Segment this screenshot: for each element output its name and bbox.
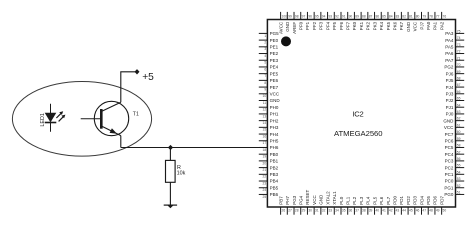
svg-text:65: 65 [457, 97, 461, 101]
IC2 pin 47 PD4 (bottom) [419, 196, 426, 215]
IC2 pin 41 PL6 (bottom) [379, 196, 386, 214]
svg-text:59: 59 [457, 137, 461, 141]
svg-text:9: 9 [264, 87, 266, 91]
svg-text:PK3: PK3 [372, 21, 377, 30]
svg-text:PF7: PF7 [346, 21, 351, 30]
svg-text:PK1: PK1 [359, 21, 364, 30]
svg-text:2: 2 [264, 41, 266, 45]
svg-text:18: 18 [263, 148, 267, 152]
svg-text:PA3: PA3 [445, 31, 454, 36]
svg-text:39: 39 [369, 209, 373, 213]
svg-text:44: 44 [402, 209, 406, 213]
IC2 pin 57 PC4 (right) [445, 150, 465, 157]
svg-text:XTAL1: XTAL1 [332, 191, 337, 205]
svg-text:31: 31 [315, 209, 319, 213]
svg-text:VCC: VCC [312, 195, 317, 205]
svg-text:RESET: RESET [305, 190, 310, 205]
IC2 pin 90 PF7 (top) [346, 12, 353, 30]
svg-text:PH6: PH6 [270, 145, 279, 150]
svg-text:30: 30 [308, 209, 312, 213]
svg-text:72: 72 [457, 50, 461, 54]
svg-text:10: 10 [263, 94, 267, 98]
IC2 pin 51 PG0 (right) [444, 191, 464, 198]
IC2 pin 40 PL5 (bottom) [372, 196, 379, 214]
svg-text:PD7: PD7 [439, 196, 444, 205]
svg-text:33: 33 [328, 209, 332, 213]
svg-text:28: 28 [295, 209, 299, 213]
svg-text:PB6: PB6 [270, 192, 279, 197]
IC2 pin 36 PL1 (bottom) [346, 196, 353, 214]
svg-text:PG4: PG4 [299, 195, 304, 205]
svg-text:PF5: PF5 [332, 21, 337, 30]
IC2 pin 100 AVCC (top) [278, 12, 287, 34]
svg-text:PK5: PK5 [386, 21, 391, 30]
svg-text:PC7: PC7 [445, 132, 454, 137]
svg-text:88: 88 [362, 15, 366, 19]
svg-text:17: 17 [263, 141, 267, 145]
IC2 pin 53 PC0 (right) [445, 177, 465, 184]
svg-text:PJ4: PJ4 [446, 85, 454, 90]
IC2 pin 8 PE6 (left) [259, 78, 279, 85]
IC2 pin 74 PA4 (right) [445, 36, 464, 43]
svg-text:PJ3: PJ3 [446, 91, 454, 96]
svg-text:89: 89 [355, 15, 359, 19]
IC2 pin 94 PF3 (top) [319, 12, 326, 30]
svg-text:1: 1 [264, 34, 266, 38]
IC2 pin 97 PF0 (top) [299, 12, 306, 30]
IC2 pin 4 PE2 (left) [259, 51, 279, 58]
svg-text:PA2: PA2 [439, 21, 444, 30]
svg-text:PF2: PF2 [312, 21, 317, 30]
svg-text:76: 76 [443, 15, 447, 19]
IC2 pin 72 PA6 (right) [445, 50, 464, 57]
svg-text:21: 21 [263, 168, 267, 172]
IC2 pin 71 PA7 (right) [445, 56, 464, 63]
svg-text:94: 94 [322, 15, 326, 19]
svg-text:87: 87 [369, 15, 373, 19]
IC2 pin 48 PD5 (bottom) [426, 196, 433, 215]
svg-text:IC2: IC2 [352, 109, 363, 118]
svg-text:PE6: PE6 [270, 78, 279, 83]
svg-text:41: 41 [382, 209, 386, 213]
svg-text:100: 100 [282, 15, 288, 19]
IC2 pin 65 PJ2 (right) [446, 97, 465, 104]
svg-text:PC6: PC6 [445, 138, 454, 143]
svg-text:PJ1: PJ1 [446, 105, 454, 110]
svg-text:6: 6 [264, 67, 266, 71]
IC2 pin 13 PH1 (left) [259, 112, 279, 119]
svg-text:62: 62 [457, 117, 461, 121]
wire T1 emitter down to node [120, 136, 122, 148]
IC2 pin 17 PH5 (left) [259, 138, 279, 145]
svg-text:PB3: PB3 [270, 172, 279, 177]
IC2 pin 16 PH4 (left) [259, 132, 279, 139]
svg-text:64: 64 [457, 103, 461, 107]
junction dot [168, 145, 173, 150]
svg-text:PK6: PK6 [392, 21, 397, 30]
svg-text:PH0: PH0 [270, 105, 279, 110]
svg-text:PC0: PC0 [445, 179, 454, 184]
wire node to IC2 pin 18 PH6 [121, 147, 268, 149]
svg-text:95: 95 [315, 15, 319, 19]
IC2 pin 43 PD0 (bottom) [392, 196, 399, 215]
svg-text:PB7: PB7 [278, 196, 283, 205]
svg-text:67: 67 [457, 83, 461, 87]
svg-text:GND: GND [270, 98, 281, 103]
svg-text:90: 90 [349, 15, 353, 19]
svg-text:11: 11 [263, 101, 267, 105]
IC2 pin 28 PG3 (bottom) [292, 195, 299, 214]
svg-text:PF4: PF4 [325, 21, 330, 30]
svg-text:PC2: PC2 [445, 165, 454, 170]
supply pin +5 [135, 69, 140, 74]
svg-text:80: 80 [416, 15, 420, 19]
svg-text:PE7: PE7 [270, 85, 279, 90]
IC2 pin 44 PD1 (bottom) [399, 196, 406, 215]
svg-text:PH2: PH2 [270, 118, 279, 123]
IC2 pin 81 GND (top) [406, 12, 413, 32]
IC2 pin 3 PE1 (left) [259, 45, 279, 52]
svg-text:PL2: PL2 [352, 196, 357, 205]
svg-text:63: 63 [457, 110, 461, 114]
svg-text:38: 38 [362, 209, 366, 213]
svg-text:GND: GND [406, 21, 411, 32]
svg-text:PD6: PD6 [433, 196, 438, 205]
IC2 pin 11 GND (left) [259, 98, 281, 105]
IC2 pin 80 VCC (top) [413, 12, 420, 31]
svg-text:T1: T1 [133, 111, 139, 117]
IC2 pin 98 AREF (top) [292, 12, 299, 34]
IC2 pin 95 PF2 (top) [312, 12, 319, 30]
svg-text:45: 45 [409, 209, 413, 213]
svg-text:98: 98 [295, 15, 299, 19]
svg-text:22: 22 [263, 175, 267, 179]
svg-text:VCC: VCC [444, 125, 454, 130]
IC2 pin 12 PH0 (left) [259, 105, 279, 112]
IC2 pin 50 PD7 (bottom) [439, 196, 446, 215]
svg-text:99: 99 [288, 15, 292, 19]
svg-text:29: 29 [302, 209, 306, 213]
IC2 pin 30 RESET (bottom) [305, 190, 312, 215]
svg-text:PJ0: PJ0 [446, 112, 454, 117]
svg-text:PB5: PB5 [270, 185, 279, 190]
svg-text:GND: GND [285, 21, 290, 32]
svg-text:49: 49 [436, 209, 440, 213]
svg-text:PA0: PA0 [426, 21, 431, 30]
svg-text:85: 85 [382, 15, 386, 19]
svg-text:PF6: PF6 [339, 21, 344, 30]
svg-text:PA1: PA1 [433, 21, 438, 30]
svg-text:26: 26 [282, 209, 286, 213]
IC2 pin 1 PG5 (left) [259, 31, 279, 38]
IC2 pin 25 PB6 (left) [259, 192, 279, 199]
IC2 pin 54 PC1 (right) [445, 170, 465, 177]
IC2 pin 37 PL2 (bottom) [352, 196, 359, 214]
IC2 pin 85 PK4 (top) [379, 12, 386, 30]
svg-text:36: 36 [349, 209, 353, 213]
IC2 pin 64 PJ1 (right) [446, 103, 465, 110]
svg-text:PF3: PF3 [319, 21, 324, 30]
IC2 pin 55 PC2 (right) [445, 164, 465, 171]
svg-text:96: 96 [308, 15, 312, 19]
IC2 pin 69 PJ6 (right) [446, 70, 465, 77]
svg-text:79: 79 [422, 15, 426, 19]
svg-text:PF0: PF0 [299, 21, 304, 30]
svg-text:81: 81 [409, 15, 413, 19]
IC2 pin 67 PJ4 (right) [446, 83, 465, 90]
IC2 pin 68 PJ5 (right) [446, 76, 465, 83]
wire T1 collector to +5 supply [121, 72, 137, 103]
svg-text:ATMEGA2560: ATMEGA2560 [334, 129, 383, 138]
svg-text:58: 58 [457, 144, 461, 148]
svg-text:68: 68 [457, 76, 461, 80]
svg-text:16: 16 [263, 134, 267, 138]
svg-text:54: 54 [457, 170, 461, 174]
IC2 pin 84 PK5 (top) [386, 12, 393, 30]
IC2 pin 73 PA5 (right) [445, 43, 464, 50]
IC2 pin 59 PC6 (right) [445, 137, 465, 144]
IC2 pin 66 PJ3 (right) [446, 90, 465, 97]
IC2 pin 6 PE4 (left) [259, 65, 279, 72]
svg-text:GND: GND [319, 194, 324, 205]
svg-text:PL5: PL5 [372, 196, 377, 205]
IC2 pin 63 PJ0 (right) [446, 110, 465, 117]
svg-text:PL1: PL1 [346, 196, 351, 205]
svg-text:LED1: LED1 [40, 113, 46, 127]
svg-text:PE0: PE0 [270, 38, 279, 43]
svg-text:32: 32 [322, 209, 326, 213]
svg-text:PJ2: PJ2 [446, 98, 454, 103]
IC2 pin 1 marker dot [281, 36, 291, 46]
IC2 pin 62 GND (right) [443, 117, 464, 124]
IC2 pin 7 PE5 (left) [259, 71, 279, 78]
svg-text:19: 19 [263, 155, 267, 159]
transistor T1 [81, 101, 129, 135]
svg-text:83: 83 [396, 15, 400, 19]
svg-text:PG2: PG2 [444, 65, 454, 70]
svg-text:34: 34 [335, 209, 339, 213]
IC2 pin 5 PE3 (left) [259, 58, 279, 65]
IC2 pin 19 PB0 (left) [259, 152, 279, 159]
svg-text:AVCC: AVCC [278, 21, 283, 34]
svg-text:14: 14 [263, 121, 267, 125]
svg-text:7: 7 [264, 74, 266, 78]
IC2 pin 14 PH2 (left) [259, 118, 279, 125]
IC2 pin 56 PC3 (right) [445, 157, 465, 164]
IC2 pin 88 PK1 (top) [359, 12, 366, 30]
svg-text:VCC: VCC [413, 21, 418, 31]
svg-text:PH4: PH4 [270, 132, 279, 137]
svg-text:PB2: PB2 [270, 165, 279, 170]
svg-text:66: 66 [457, 90, 461, 94]
IC2 pin 92 PF5 (top) [332, 12, 339, 30]
svg-text:PL7: PL7 [386, 196, 391, 205]
svg-text:50: 50 [443, 209, 447, 213]
svg-text:97: 97 [302, 15, 306, 19]
IC2 pin 32 GND (bottom) [319, 194, 326, 215]
IC2 pin 18 PH6 (left) [259, 145, 279, 152]
svg-text:PC3: PC3 [445, 159, 454, 164]
svg-text:20: 20 [263, 161, 267, 165]
IC2 pin 76 PA2 (top) [439, 12, 446, 30]
svg-text:86: 86 [375, 15, 379, 19]
IC IC2 package outline [267, 20, 455, 208]
svg-text:43: 43 [396, 209, 400, 213]
svg-text:4: 4 [264, 54, 266, 58]
svg-text:PG3: PG3 [292, 195, 297, 205]
svg-text:78: 78 [429, 15, 433, 19]
svg-text:PJ5: PJ5 [446, 78, 454, 83]
svg-text:57: 57 [457, 150, 461, 154]
svg-text:PG0: PG0 [444, 192, 454, 197]
IC2 pin 38 PL3 (bottom) [359, 196, 366, 214]
IC2 pin 87 PK2 (top) [366, 12, 373, 30]
svg-text:PH3: PH3 [270, 125, 279, 130]
svg-text:PC4: PC4 [445, 152, 454, 157]
svg-text:+5: +5 [142, 72, 154, 83]
IC2 pin 22 PB3 (left) [259, 172, 279, 179]
IC2 pin 34 XTAL1 (bottom) [332, 191, 339, 215]
IC2 pin 58 PC5 (right) [445, 144, 465, 151]
svg-text:55: 55 [457, 164, 461, 168]
svg-text:PB4: PB4 [270, 179, 279, 184]
svg-text:PK2: PK2 [366, 21, 371, 30]
svg-text:27: 27 [288, 209, 292, 213]
svg-text:VCC: VCC [270, 91, 280, 96]
svg-text:PG1: PG1 [444, 185, 454, 190]
svg-text:84: 84 [389, 15, 393, 19]
IC2 pin 20 PB1 (left) [259, 159, 279, 166]
IC2 pin 83 PK6 (top) [392, 12, 399, 30]
IC2 pin 79 PJ7 (top) [419, 12, 426, 30]
svg-text:37: 37 [355, 209, 359, 213]
IC2 pin 26 PB7 (bottom) [278, 196, 285, 215]
IC2 pin 78 PA0 (top) [426, 12, 433, 30]
IC2 pin 52 PG1 (right) [444, 184, 464, 191]
IC2 pin 29 PG4 (bottom) [299, 195, 306, 214]
svg-text:PF1: PF1 [305, 21, 310, 30]
svg-text:51: 51 [457, 191, 461, 195]
svg-text:PH5: PH5 [270, 138, 279, 143]
svg-text:PL6: PL6 [379, 196, 384, 205]
svg-text:PE5: PE5 [270, 71, 279, 76]
IC2 pin 96 PF1 (top) [305, 12, 312, 30]
svg-text:53: 53 [457, 177, 461, 181]
IC2 pin 31 VCC (bottom) [312, 195, 319, 215]
IC2 pin 42 PL7 (bottom) [386, 196, 393, 214]
IC2 pin 33 XTAL2 (bottom) [325, 191, 332, 215]
svg-text:12: 12 [263, 108, 267, 112]
svg-text:AREF: AREF [292, 22, 297, 34]
IC2 pin 75 PA3 (right) [445, 30, 464, 37]
svg-text:77: 77 [436, 15, 440, 19]
svg-text:PH7: PH7 [285, 196, 290, 205]
svg-text:52: 52 [457, 184, 461, 188]
svg-text:PL0: PL0 [339, 196, 344, 205]
LED LED1 [45, 104, 66, 132]
label R 10k [177, 165, 186, 177]
svg-text:PL3: PL3 [359, 196, 364, 205]
svg-text:PB1: PB1 [270, 159, 279, 164]
IC2 pin 45 PD2 (bottom) [406, 196, 413, 215]
svg-text:PJ7: PJ7 [419, 21, 424, 29]
svg-text:42: 42 [389, 209, 393, 213]
svg-text:13: 13 [263, 114, 267, 118]
svg-text:74: 74 [457, 36, 461, 40]
IC2 pin 24 PB5 (left) [259, 185, 279, 192]
IC2 pin 91 PF6 (top) [339, 12, 346, 30]
svg-text:73: 73 [457, 43, 461, 47]
annotation ellipse around LED1 and T1 [12, 82, 151, 157]
svg-text:PK4: PK4 [379, 21, 384, 30]
svg-text:35: 35 [342, 209, 346, 213]
IC2 pin 10 VCC (left) [259, 91, 280, 98]
svg-text:PA4: PA4 [445, 38, 454, 43]
svg-text:GND: GND [443, 118, 454, 123]
svg-text:69: 69 [457, 70, 461, 74]
svg-text:24: 24 [263, 188, 267, 192]
IC2 pin 35 PL0 (bottom) [339, 196, 346, 214]
svg-text:PD3: PD3 [413, 196, 418, 205]
svg-text:PH1: PH1 [270, 112, 279, 117]
svg-text:40: 40 [375, 209, 379, 213]
svg-text:23: 23 [263, 181, 267, 185]
ground symbol [164, 205, 177, 208]
IC2 pin 23 PB4 (left) [259, 179, 279, 186]
svg-text:PA5: PA5 [445, 45, 454, 50]
svg-text:PL4: PL4 [366, 196, 371, 205]
svg-text:PE1: PE1 [270, 45, 279, 50]
svg-text:92: 92 [335, 15, 339, 19]
IC2 pin 46 PD3 (bottom) [413, 196, 420, 215]
svg-text:PE2: PE2 [270, 51, 279, 56]
svg-text:47: 47 [422, 209, 426, 213]
IC2 pin 15 PH3 (left) [259, 125, 279, 132]
IC2 pin 82 PK7 (top) [399, 12, 406, 30]
svg-text:93: 93 [328, 15, 332, 19]
IC2 pin 9 PE7 (left) [259, 85, 279, 92]
svg-text:PE3: PE3 [270, 58, 279, 63]
IC2 pin 2 PE0 (left) [259, 38, 279, 45]
IC2 pin 61 VCC (right) [444, 123, 464, 130]
svg-text:25: 25 [263, 195, 267, 199]
svg-text:75: 75 [457, 30, 461, 34]
IC2 pin 77 PA1 (top) [433, 12, 440, 30]
svg-text:46: 46 [416, 209, 420, 213]
wire resistor R to ground [169, 182, 171, 205]
svg-text:PA6: PA6 [445, 51, 454, 56]
svg-text:PC1: PC1 [445, 172, 454, 177]
svg-text:8: 8 [264, 81, 266, 85]
svg-text:PK0: PK0 [352, 21, 357, 30]
IC2 pin 99 GND (top) [285, 12, 292, 32]
wire junction to resistor R [169, 148, 171, 161]
svg-text:PJ6: PJ6 [446, 71, 454, 76]
svg-text:PD5: PD5 [426, 196, 431, 205]
IC2 pin 60 PC7 (right) [445, 130, 465, 137]
svg-text:PD0: PD0 [392, 196, 397, 205]
IC2 pin 86 PK3 (top) [372, 12, 379, 30]
IC2 pin 39 PL4 (bottom) [366, 196, 373, 214]
svg-text:15: 15 [263, 128, 267, 132]
svg-text:PC5: PC5 [445, 145, 454, 150]
svg-text:PB0: PB0 [270, 152, 279, 157]
svg-text:71: 71 [457, 56, 461, 60]
svg-text:10k: 10k [177, 170, 186, 176]
svg-text:82: 82 [402, 15, 406, 19]
svg-text:PK7: PK7 [399, 21, 404, 30]
svg-text:48: 48 [429, 209, 433, 213]
